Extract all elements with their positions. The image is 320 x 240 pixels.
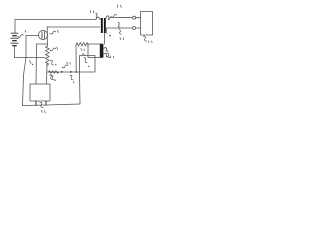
- coil leads right: [104, 48, 109, 57]
- wire stub 44: [37, 43, 48, 45]
- terminal bottom: [133, 27, 136, 30]
- microphone 8: [38, 30, 47, 39]
- label lead below key left: [50, 75, 53, 79]
- resistor 11: [76, 43, 88, 48]
- label lead 7: [18, 31, 27, 38]
- box 2: [80, 56, 96, 73]
- battery 7: [11, 33, 18, 46]
- wire core connector: [104, 33, 106, 44]
- wire long left vertical: [23, 36, 27, 106]
- resistor on key wire: [49, 71, 59, 74]
- load box 2: [141, 12, 153, 36]
- key contacts: [61, 71, 72, 73]
- label lead 16: [111, 5, 121, 17]
- label lead 3: [51, 75, 56, 81]
- label lead 15: [90, 11, 97, 18]
- label lead between wires: [118, 23, 120, 28]
- wire key horizontal 72: [47, 71, 80, 73]
- label lead 18: [144, 36, 153, 42]
- relay coil 12: [88, 44, 103, 58]
- wire box1 bottom leads: [36, 101, 46, 105]
- wire top horizontal: [15, 19, 96, 21]
- wire microphone right vertical: [46, 27, 48, 46]
- label 5: [30, 61, 34, 66]
- label lead 9: [50, 47, 58, 51]
- label lead 6: [105, 29, 111, 37]
- label lead 4: [51, 60, 57, 65]
- label 11: [81, 49, 85, 55]
- wire microphone left: [26, 35, 38, 37]
- wire terminal stubs: [136, 18, 141, 28]
- terminal top: [133, 16, 136, 19]
- box 1: [30, 84, 50, 101]
- wire mid-left vertical: [35, 44, 38, 84]
- junction dot: [75, 71, 77, 73]
- wire right riser: [79, 72, 82, 104]
- label lead 17: [119, 30, 124, 40]
- label lead 2: [84, 58, 89, 67]
- label lead 13: [40, 102, 46, 113]
- wire mid horizontal 27: [47, 26, 100, 28]
- label lead 8: [50, 30, 59, 34]
- wire resistor to box: [46, 64, 49, 85]
- label lead 10: [62, 62, 70, 68]
- wire bottom horizontal: [23, 104, 81, 106]
- resistor 9: [45, 46, 49, 66]
- wire bottom left horizontal: [15, 57, 45, 59]
- transformer core bars 15: [101, 18, 106, 33]
- wire left vertical: [14, 20, 16, 33]
- wire resistor11 left drop: [75, 46, 77, 73]
- primary hook: [96, 17, 101, 19]
- wire secondary bottom: [106, 27, 132, 29]
- label lead below key right: [70, 75, 74, 83]
- label lead 14: [108, 53, 114, 58]
- wire secondary top: [111, 16, 133, 18]
- junction dot top: [108, 18, 110, 20]
- secondary hook: [106, 16, 111, 18]
- wire battery bottom: [14, 47, 16, 58]
